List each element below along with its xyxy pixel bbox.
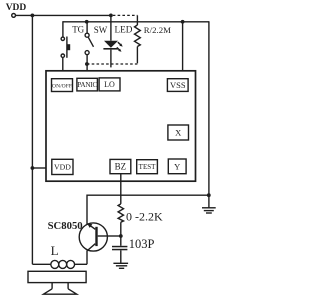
node emitter ground junction	[207, 193, 211, 197]
svg-text:PANIC: PANIC	[77, 81, 97, 89]
wire right ground rail	[208, 21, 210, 208]
dashed wire option net	[87, 63, 137, 65]
pin LO	[99, 78, 120, 91]
LED D1	[103, 15, 122, 67]
transistor Q1 SC8050	[79, 223, 107, 251]
svg-text:Y: Y	[174, 161, 180, 171]
pushbutton TG	[61, 37, 70, 58]
pin BZ	[110, 159, 131, 173]
node chip VDD branch	[31, 166, 35, 170]
pin PANIC	[77, 78, 98, 91]
svg-text:VSS: VSS	[170, 80, 186, 90]
IC U1	[46, 71, 196, 181]
svg-text:SW: SW	[94, 25, 108, 35]
node VDD left branch	[31, 14, 35, 18]
svg-text:VDD: VDD	[6, 3, 27, 13]
wire TG to ON/OFF pin	[62, 57, 64, 70]
wire collector to coil	[86, 251, 88, 265]
node VSS branch	[181, 20, 185, 24]
dashed wire VDD to resistor	[113, 14, 138, 16]
svg-text:L: L	[51, 243, 59, 258]
svg-text:X: X	[175, 127, 181, 137]
svg-text:BZ: BZ	[115, 162, 127, 172]
svg-text:TG: TG	[72, 24, 84, 34]
wire VSS pin	[182, 22, 184, 71]
speaker	[28, 271, 86, 294]
wire emitter to ground rail	[87, 195, 209, 224]
svg-text:LO: LO	[104, 80, 115, 89]
ground capacitor	[113, 263, 128, 268]
terminal VDD	[12, 14, 16, 18]
svg-text:SC8050: SC8050	[48, 220, 83, 232]
node option net left	[85, 62, 89, 66]
pin ON/OFF	[52, 79, 73, 92]
pin VDD	[52, 159, 73, 174]
switch SW	[85, 22, 93, 55]
svg-text:VDD: VDD	[54, 163, 71, 172]
svg-text:R/2.2M: R/2.2M	[144, 25, 171, 35]
wire BZ to base resistor	[120, 174, 122, 204]
node LED anode	[109, 14, 113, 18]
wire to chip VDD pin	[32, 167, 46, 169]
wire VDD left vertical	[31, 15, 33, 264]
pin X	[168, 125, 189, 140]
ground right	[202, 208, 216, 213]
inductor L	[32, 260, 87, 268]
svg-text:ON/OFF: ON/OFF	[52, 83, 72, 89]
svg-text:LED: LED	[115, 24, 133, 34]
resistor 0-2.2K	[118, 204, 123, 236]
capacitor 103P	[112, 236, 127, 263]
wire SW to PANIC pin	[86, 55, 88, 71]
wire base	[107, 235, 121, 237]
pin Y	[168, 159, 186, 174]
svg-text:0 -2.2K: 0 -2.2K	[126, 209, 163, 223]
wire TG top lead	[62, 21, 64, 37]
node SW top	[85, 20, 89, 24]
pin VSS	[167, 79, 188, 92]
wire ground rail top	[63, 21, 209, 23]
resistor R/2.2M	[135, 15, 141, 63]
svg-text:TEST: TEST	[139, 163, 156, 171]
svg-text:103P: 103P	[129, 237, 155, 251]
pin TEST	[137, 160, 158, 174]
wire VDD rail	[16, 14, 111, 16]
node base	[119, 234, 123, 238]
